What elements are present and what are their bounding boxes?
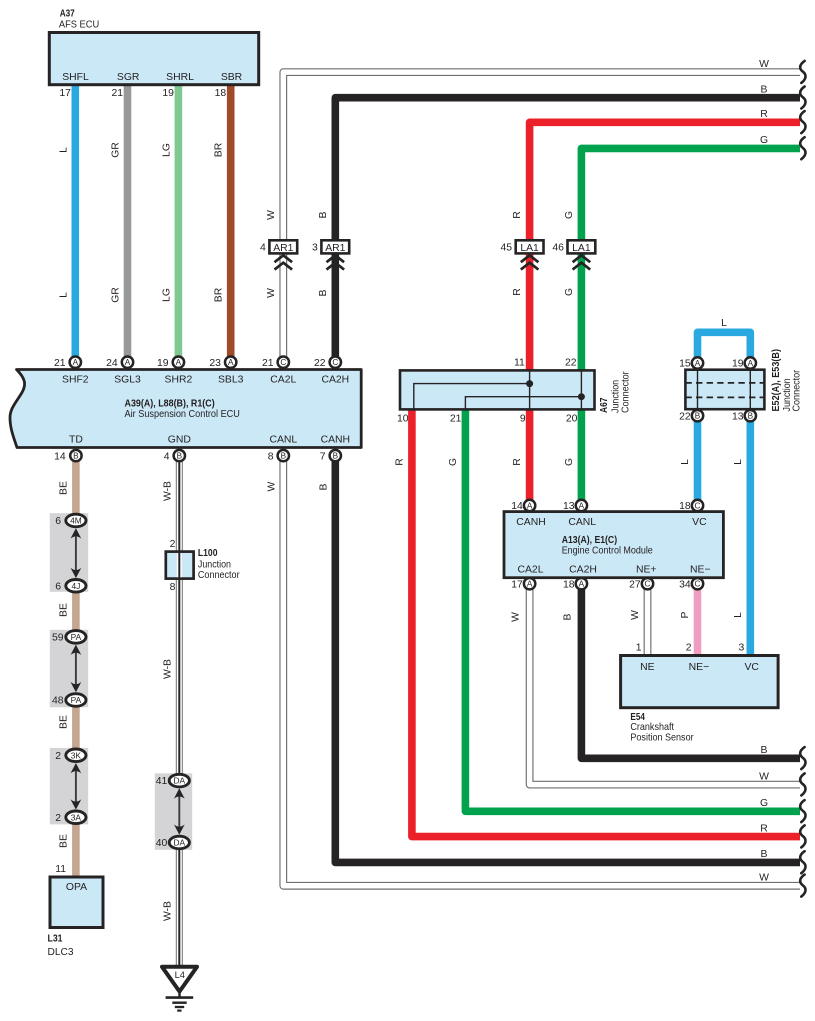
- svg-text:BE: BE: [59, 834, 70, 848]
- svg-text:OPA: OPA: [66, 882, 87, 893]
- svg-text:8: 8: [170, 582, 176, 593]
- wire R right edge to A67:11 via LA1-45: [530, 122, 800, 370]
- svg-text:4: 4: [260, 243, 266, 254]
- break G top right: [760, 135, 806, 159]
- wire P ECM E1:34C NE- to E54:2 NE-: [694, 589, 702, 657]
- svg-text:W: W: [759, 873, 769, 884]
- svg-text:R: R: [760, 109, 768, 120]
- svg-text:45: 45: [501, 243, 513, 254]
- svg-text:E54: E54: [630, 712, 645, 723]
- svg-text:CANH: CANH: [321, 435, 350, 446]
- svg-text:7: 7: [320, 451, 326, 462]
- svg-text:VC: VC: [744, 662, 759, 673]
- svg-text:VC: VC: [692, 517, 707, 528]
- svg-text:DA: DA: [173, 776, 185, 786]
- svg-text:11: 11: [514, 358, 525, 369]
- svg-text:SHF2: SHF2: [62, 374, 89, 385]
- svg-text:46: 46: [552, 243, 564, 254]
- svg-text:L: L: [58, 147, 69, 153]
- svg-text:B: B: [281, 452, 287, 461]
- break B bottom (CANH): [761, 849, 806, 873]
- svg-text:AR1: AR1: [273, 243, 293, 254]
- svg-text:Connector: Connector: [792, 369, 803, 411]
- svg-text:21: 21: [450, 413, 462, 424]
- shield band (DA-DA): [155, 773, 192, 850]
- wire G A67:20 to ECM A13:13A CANL: [578, 408, 586, 500]
- svg-text:C: C: [645, 580, 651, 589]
- pin 27(C) ECM NE+: [642, 578, 653, 589]
- svg-text:A: A: [73, 358, 79, 367]
- svg-text:G: G: [564, 211, 575, 219]
- svg-text:G: G: [760, 798, 768, 809]
- svg-text:18: 18: [679, 501, 691, 512]
- svg-text:R: R: [512, 288, 523, 296]
- connector PA-59: [66, 631, 86, 644]
- svg-text:G: G: [564, 458, 575, 466]
- pin 21(A) SHF2: [70, 357, 81, 368]
- svg-text:22: 22: [314, 358, 326, 369]
- wire W-B L100 to connector DA-41: [176, 553, 183, 776]
- break W bottom (CANL): [759, 873, 805, 897]
- pin 23(A) SBL3: [225, 357, 236, 368]
- svg-text:NE+: NE+: [636, 564, 657, 575]
- svg-text:B: B: [761, 849, 768, 860]
- ground symbol L4: [162, 967, 197, 1011]
- svg-text:19: 19: [157, 358, 169, 369]
- svg-text:A: A: [228, 358, 234, 367]
- svg-text:Crankshaft: Crankshaft: [630, 722, 674, 733]
- pin 15(A) E52: [692, 357, 703, 368]
- junction connector box E52/E53: [685, 370, 764, 410]
- svg-text:17: 17: [511, 579, 523, 590]
- svg-text:SHRL: SHRL: [166, 72, 194, 83]
- svg-text:W-B: W-B: [162, 481, 173, 501]
- wire BE connector 3A to L31 OPA: [72, 822, 80, 878]
- wire W-B connector DA-40 to ground L4: [176, 847, 183, 966]
- svg-text:Air Suspension Control ECU: Air Suspension Control ECU: [125, 409, 240, 420]
- connector box L31 DLC3 (OPA): [50, 877, 103, 928]
- svg-text:A: A: [579, 580, 585, 589]
- ECU box A39/L88/R1 Air Suspension Control ECU (torn left edge): [10, 370, 361, 448]
- svg-text:R: R: [760, 823, 768, 834]
- svg-text:BE: BE: [59, 481, 70, 495]
- A67 internal bus pin21 to G with junction dot: [465, 370, 585, 409]
- svg-text:A37: A37: [60, 8, 75, 19]
- svg-text:W-B: W-B: [162, 901, 173, 921]
- svg-text:A67: A67: [599, 397, 610, 413]
- wire W ECM E1:27C NE+ to E54:1 NE: [644, 589, 652, 657]
- svg-text:CANL: CANL: [568, 517, 596, 528]
- wire R A67:9 to ECM A13:14A CANH: [526, 408, 534, 500]
- connector flag AR1 pin 3 (B wire): [312, 240, 349, 269]
- svg-text:23: 23: [209, 358, 221, 369]
- svg-text:14: 14: [511, 501, 523, 512]
- svg-text:GR: GR: [111, 142, 122, 158]
- svg-text:L: L: [733, 459, 744, 465]
- wire L E52:22B to ECM E1:18C VC: [694, 421, 702, 500]
- svg-text:9: 9: [520, 413, 526, 424]
- svg-text:DA: DA: [173, 838, 185, 848]
- svg-text:AFS ECU: AFS ECU: [59, 19, 99, 30]
- svg-text:GR: GR: [111, 287, 122, 303]
- svg-text:W: W: [759, 59, 769, 70]
- svg-text:W-B: W-B: [162, 659, 173, 679]
- svg-text:19: 19: [162, 88, 174, 99]
- svg-text:CA2H: CA2H: [321, 374, 349, 385]
- svg-text:W: W: [511, 612, 522, 622]
- svg-text:B: B: [761, 85, 768, 96]
- svg-text:6: 6: [55, 581, 61, 592]
- wire W A39:8B CANL to right edge bottom: [283, 461, 800, 886]
- svg-text:SHFL: SHFL: [62, 72, 89, 83]
- pin 13(B) E52: [745, 410, 756, 421]
- svg-text:2: 2: [55, 751, 61, 762]
- svg-text:Engine Control Module: Engine Control Module: [562, 545, 653, 556]
- svg-text:B: B: [562, 613, 573, 620]
- svg-text:15: 15: [679, 359, 691, 370]
- pin 4(B) GND: [174, 450, 185, 461]
- connector flag LA1 pin 46 (G wire): [552, 240, 595, 269]
- svg-text:34: 34: [679, 579, 691, 590]
- break R top right: [760, 109, 805, 133]
- pin 22(B) E52: [692, 410, 703, 421]
- wire BE A39:14B TD to connector 4M: [72, 461, 80, 516]
- svg-text:L: L: [58, 292, 69, 298]
- wire W-B through L100: [177, 552, 182, 579]
- svg-text:CA2L: CA2L: [270, 374, 296, 385]
- svg-text:L4: L4: [175, 970, 185, 980]
- svg-text:W: W: [266, 482, 277, 492]
- svg-text:C: C: [695, 501, 701, 510]
- shield band (3K-3A): [50, 748, 88, 825]
- sensor box E54 Crankshaft Position Sensor: [621, 656, 779, 708]
- A67 internal bus pin10 to R with junction dot: [414, 370, 533, 409]
- connector PA-48: [66, 694, 86, 707]
- svg-text:SHR2: SHR2: [165, 374, 193, 385]
- wire BE connector 4J to connector PA-59: [72, 590, 80, 632]
- svg-text:A: A: [527, 501, 533, 510]
- svg-text:B: B: [761, 745, 768, 756]
- svg-text:A: A: [579, 501, 585, 510]
- svg-text:59: 59: [52, 633, 64, 644]
- break B top right: [761, 85, 806, 109]
- svg-text:41: 41: [156, 776, 168, 787]
- svg-text:NE: NE: [640, 662, 655, 673]
- svg-text:LG: LG: [161, 288, 172, 302]
- svg-text:W: W: [759, 771, 769, 782]
- break G bottom (A67:21): [760, 798, 806, 822]
- connector flag LA1 pin 45 (R wire): [501, 240, 544, 269]
- connector 4J: [66, 580, 86, 593]
- connector 3A: [66, 811, 86, 824]
- wire B right edge to A39:22C CA2H via AR1-3: [335, 98, 800, 357]
- shield arrows DA-DA: [174, 788, 185, 835]
- connector 4M: [66, 514, 86, 527]
- wire BR (brown) A37:18 SBR to A39:23A: [227, 84, 235, 357]
- svg-text:A13(A), E1(C): A13(A), E1(C): [562, 535, 617, 546]
- svg-text:L100: L100: [198, 548, 218, 559]
- svg-text:A: A: [748, 359, 754, 368]
- wire BE connector PA-48 to connector 3K: [72, 705, 80, 751]
- wire W right edge to A39:21C CA2L via AR1-4: [283, 72, 800, 357]
- svg-text:21: 21: [262, 358, 274, 369]
- svg-text:21: 21: [54, 358, 66, 369]
- svg-text:24: 24: [106, 358, 118, 369]
- svg-text:G: G: [760, 135, 768, 146]
- pin 19(A) E52: [745, 357, 756, 368]
- pin 18(A) ECM CA2H: [576, 578, 587, 589]
- connector 3K: [66, 749, 86, 762]
- junction connector box A67: [400, 370, 595, 409]
- pin 7(B) CANH: [330, 450, 341, 461]
- svg-text:A: A: [695, 359, 701, 368]
- svg-text:13: 13: [732, 411, 744, 422]
- pin 13(A) ECM CANL: [576, 500, 587, 511]
- svg-text:W: W: [266, 288, 277, 298]
- ECM box A13(A),E1(C) Engine Control Module: [504, 512, 723, 578]
- shield band (4M-4J): [50, 513, 88, 592]
- svg-text:Connector: Connector: [621, 371, 632, 413]
- svg-text:B: B: [73, 452, 79, 461]
- svg-text:17: 17: [59, 88, 71, 99]
- svg-text:20: 20: [566, 413, 578, 424]
- svg-text:W: W: [630, 610, 641, 620]
- svg-text:G: G: [564, 288, 575, 296]
- svg-text:CANL: CANL: [269, 435, 297, 446]
- svg-text:13: 13: [563, 501, 575, 512]
- svg-text:1: 1: [636, 643, 642, 654]
- wire L (blue) A37:17 SHFL to A39:21A: [72, 84, 80, 357]
- svg-text:3A: 3A: [71, 812, 82, 822]
- wire W-B A39:4B GND to L100: [176, 461, 183, 553]
- svg-text:A: A: [527, 580, 533, 589]
- wire B A39:7B CANH to right edge bottom: [335, 461, 800, 862]
- svg-text:B: B: [748, 412, 754, 421]
- svg-text:14: 14: [54, 451, 66, 462]
- svg-text:P: P: [680, 611, 691, 618]
- svg-text:B: B: [177, 452, 183, 461]
- svg-text:4J: 4J: [71, 581, 80, 591]
- svg-text:BR: BR: [214, 287, 225, 302]
- svg-text:C: C: [332, 358, 338, 367]
- svg-text:CA2L: CA2L: [518, 564, 544, 575]
- svg-text:NE−: NE−: [690, 564, 711, 575]
- pin 34(C) ECM NE-: [692, 578, 703, 589]
- ECU box A37 AFS ECU: [49, 33, 258, 85]
- svg-text:2: 2: [55, 813, 61, 824]
- svg-text:LA1: LA1: [572, 243, 591, 254]
- svg-text:PA: PA: [71, 695, 82, 705]
- shield band (PA-PA): [50, 630, 88, 708]
- svg-text:E52(A), E53(B): E52(A), E53(B): [771, 349, 782, 412]
- svg-text:B: B: [319, 483, 330, 490]
- svg-text:PA: PA: [71, 632, 82, 642]
- svg-text:3: 3: [739, 643, 745, 654]
- wire G A67:21 to right edge bottom: [465, 408, 800, 811]
- svg-text:SBR: SBR: [221, 72, 243, 83]
- svg-text:SGR: SGR: [117, 72, 140, 83]
- svg-text:R: R: [512, 458, 523, 466]
- svg-text:LG: LG: [161, 143, 172, 157]
- wire L E52:13B to E54:3 VC: [746, 421, 754, 657]
- svg-text:L31: L31: [48, 933, 63, 944]
- pin 19(A) SHR2: [173, 357, 184, 368]
- svg-text:CANH: CANH: [516, 517, 545, 528]
- svg-text:L: L: [733, 612, 744, 618]
- svg-text:A39(A), L88(B), R1(C): A39(A), L88(B), R1(C): [125, 399, 215, 410]
- svg-text:BE: BE: [59, 715, 70, 729]
- connector DA-41: [169, 774, 189, 787]
- svg-text:48: 48: [52, 696, 64, 707]
- svg-text:40: 40: [156, 838, 168, 849]
- svg-text:3: 3: [312, 243, 318, 254]
- wire B ECM A13:18A CA2H to right edge: [581, 589, 800, 758]
- pin 24(A) SGL3: [122, 357, 133, 368]
- pin 21(C) CA2L: [278, 357, 289, 368]
- svg-text:2: 2: [170, 539, 176, 550]
- svg-text:Position Sensor: Position Sensor: [630, 733, 694, 744]
- svg-text:B: B: [695, 412, 701, 421]
- svg-text:Connector: Connector: [198, 570, 240, 581]
- svg-text:G: G: [448, 458, 459, 466]
- svg-text:4M: 4M: [70, 516, 82, 526]
- svg-text:W: W: [266, 210, 277, 220]
- svg-text:3K: 3K: [71, 750, 82, 760]
- connector DA-40: [169, 836, 189, 849]
- svg-text:18: 18: [563, 579, 575, 590]
- break B bottom (CA2H): [761, 745, 806, 769]
- svg-text:R: R: [512, 211, 523, 219]
- svg-text:8: 8: [268, 451, 274, 462]
- svg-text:GND: GND: [168, 435, 191, 446]
- svg-text:6: 6: [55, 516, 61, 527]
- svg-text:Junction: Junction: [198, 559, 231, 570]
- svg-text:2: 2: [686, 643, 692, 654]
- wire LG (lt green) A37:19 SHRL to A39:19A: [175, 84, 183, 357]
- svg-text:A: A: [176, 358, 182, 367]
- wire GR (gray) A37:21 SGR to A39:24A: [124, 84, 132, 357]
- pin 8(B) CANL: [278, 450, 289, 461]
- break R bottom (A67:10): [760, 823, 805, 847]
- svg-text:22: 22: [679, 411, 691, 422]
- shield arrows 3K-3A: [71, 763, 82, 810]
- svg-text:19: 19: [732, 359, 744, 370]
- pin 17(A) ECM CA2L: [524, 578, 535, 589]
- wire L loop E52:15A to E52:19A: [698, 332, 751, 358]
- svg-text:10: 10: [397, 413, 409, 424]
- svg-text:CA2H: CA2H: [569, 564, 597, 575]
- shield arrows PA-PA: [71, 645, 82, 693]
- wire R A67:10 to right edge bottom: [412, 408, 800, 837]
- svg-text:DLC3: DLC3: [48, 947, 74, 958]
- svg-text:TD: TD: [69, 435, 83, 446]
- svg-text:B: B: [318, 211, 329, 218]
- connector flag AR1 pin 4 (W wire): [260, 240, 297, 269]
- pin 18(C) ECM VC: [692, 500, 703, 511]
- E52 internal dashed bus lines: [685, 370, 764, 410]
- wire G right edge to A67:22 via LA1-46: [581, 148, 800, 370]
- shield arrows 4M-4J: [71, 528, 82, 578]
- svg-text:LA1: LA1: [520, 243, 539, 254]
- svg-text:21: 21: [112, 88, 124, 99]
- svg-text:BR: BR: [214, 142, 225, 157]
- svg-text:BE: BE: [59, 603, 70, 617]
- E52 internal wire paths: [697, 370, 699, 410]
- svg-text:A: A: [125, 358, 131, 367]
- svg-text:R: R: [395, 458, 406, 466]
- svg-text:L: L: [680, 459, 691, 465]
- junction connector box L100: [166, 552, 194, 579]
- pin 22(C) CA2H: [330, 357, 341, 368]
- svg-text:27: 27: [629, 579, 641, 590]
- svg-text:4: 4: [164, 451, 170, 462]
- svg-text:C: C: [280, 358, 286, 367]
- svg-text:NE−: NE−: [689, 662, 710, 673]
- svg-text:SGL3: SGL3: [114, 374, 141, 385]
- svg-text:B: B: [318, 289, 329, 296]
- svg-text:22: 22: [565, 358, 577, 369]
- svg-text:SBL3: SBL3: [218, 374, 244, 385]
- wire W ECM A13:17A CA2L to right edge: [530, 589, 800, 785]
- pin 14(B) TD: [70, 450, 81, 461]
- break W top right: [759, 59, 805, 83]
- svg-text:11: 11: [55, 864, 66, 875]
- break W bottom (CA2L): [759, 771, 805, 795]
- svg-text:AR1: AR1: [325, 243, 345, 254]
- svg-text:C: C: [695, 580, 701, 589]
- pin 14(A) ECM CANH: [524, 500, 535, 511]
- svg-text:B: B: [333, 452, 339, 461]
- svg-text:L: L: [721, 318, 727, 329]
- svg-text:18: 18: [215, 88, 227, 99]
